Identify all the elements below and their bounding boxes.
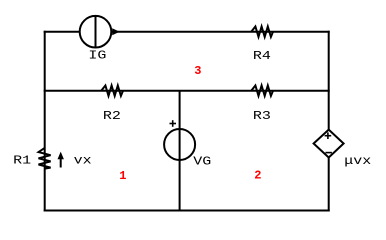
resistor R2 — [101, 86, 123, 96]
resistor R4 — [251, 27, 273, 37]
wire right lower — [328, 158, 330, 211]
plus sign diamond — [325, 132, 332, 139]
wire bottom — [45, 210, 329, 212]
resistor R3 — [251, 86, 273, 96]
svg-text:2: 2 — [254, 169, 261, 183]
plus sign VG — [170, 120, 177, 127]
svg-text:1: 1 — [119, 169, 126, 183]
svg-text:μvx: μvx — [344, 154, 371, 168]
svg-text:vx: vx — [74, 154, 92, 168]
dependent source uvx (diamond) — [314, 130, 344, 158]
voltage source VG — [164, 129, 195, 160]
wire middle vertical — [179, 91, 181, 211]
wire top-middle segment — [111, 31, 328, 33]
arrow vx — [58, 152, 64, 168]
svg-text:R2: R2 — [103, 109, 121, 123]
minus sign diamond — [325, 152, 332, 154]
wire left — [44, 32, 46, 211]
current source IG — [80, 16, 120, 48]
wire top-left segment — [45, 31, 80, 33]
svg-text:R4: R4 — [253, 49, 271, 63]
svg-text:R1: R1 — [13, 154, 31, 168]
wire middle horizontal — [45, 90, 329, 92]
wire right upper — [328, 32, 330, 130]
svg-text:IG: IG — [88, 49, 106, 63]
svg-text:3: 3 — [194, 64, 201, 78]
svg-text:R3: R3 — [253, 109, 271, 123]
svg-text:VG: VG — [193, 154, 211, 168]
resistor R1 — [39, 148, 51, 169]
